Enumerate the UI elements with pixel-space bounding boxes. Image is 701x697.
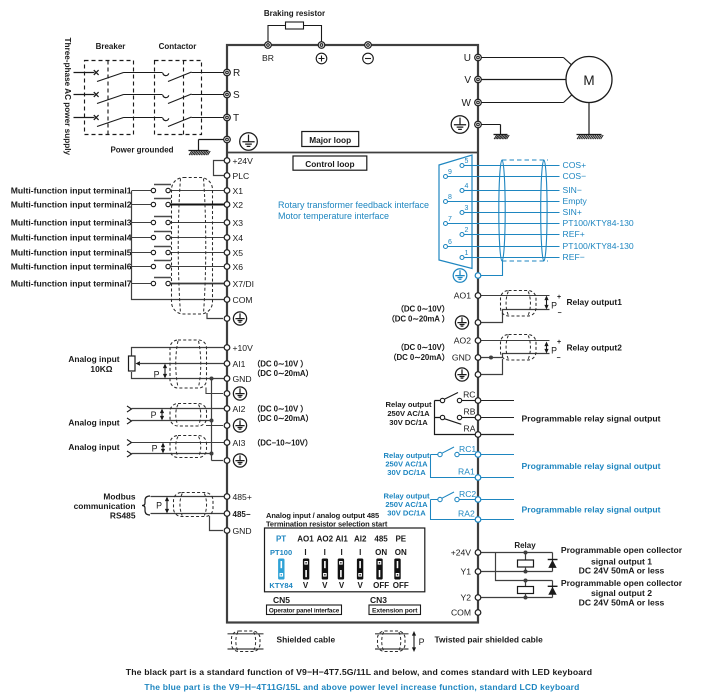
svg-text:10KΩ: 10KΩ [90, 364, 112, 374]
label Modbus communication RS485 [74, 492, 136, 521]
encoder shield wire [481, 261, 503, 276]
wire pot wiper to AI1 [139, 363, 224, 365]
svg-text:COM: COM [233, 295, 253, 305]
label Power grounded [110, 146, 173, 155]
terminal - (DC bus minus) [363, 42, 374, 64]
wire Y1 [481, 571, 553, 573]
svg-text:Programmable relay signal outp: Programmable relay signal output [522, 505, 661, 515]
protective earth symbol analog3 [233, 454, 246, 467]
svg-text:Three-phase AC power supply: Three-phase AC power supply [63, 38, 72, 156]
brace RS485 [142, 496, 150, 515]
label open collector output 2 [561, 578, 683, 608]
terminal earth AO1 [475, 320, 481, 326]
svg-text:AI1: AI1 [233, 359, 246, 369]
label termination resistor table header [266, 511, 388, 528]
svg-text:PT: PT [276, 535, 286, 544]
shield to ground wire [207, 313, 223, 319]
terminal ground (output side) [475, 121, 482, 128]
label Major loop [302, 132, 359, 147]
twisted pair arrow P (485) [156, 497, 169, 514]
svg-text:KTY84: KTY84 [269, 581, 293, 590]
terminal R [224, 68, 241, 79]
svg-text:RS485: RS485 [110, 511, 136, 521]
label Multi-function input terminal3 [11, 217, 132, 227]
label Multi-function input terminal1 [11, 185, 132, 195]
svg-text:X7/DI: X7/DI [233, 279, 255, 289]
svg-text:AI2: AI2 [354, 535, 367, 544]
svg-text:Y2: Y2 [460, 593, 471, 603]
svg-text:COS+: COS+ [563, 160, 587, 170]
multi-function input switch S1 [132, 185, 224, 193]
wire W to motor [481, 95, 572, 103]
DIP switch AI2 [357, 559, 363, 580]
table header row [276, 535, 407, 544]
connector CN3 Extension port [369, 605, 421, 615]
terminal ground (input side) [224, 136, 231, 143]
svg-text:U: U [464, 53, 471, 64]
AO2 shielded cable [501, 335, 537, 361]
svg-text:Relay output1: Relay output1 [567, 297, 623, 307]
wire Y2 [481, 597, 553, 599]
terminal ground (digital) [224, 316, 230, 322]
label Relay (open collector) [514, 541, 536, 550]
wire 485+ [151, 496, 225, 498]
svg-text:X5: X5 [233, 248, 244, 258]
svg-text:−: − [557, 355, 561, 362]
svg-text:Braking resistor: Braking resistor [264, 9, 325, 18]
svg-text:Analog input: Analog input [68, 354, 119, 364]
svg-text:signal output 2: signal output 2 [591, 588, 652, 598]
svg-text:GND: GND [452, 353, 471, 363]
svg-text:+10V: +10V [233, 343, 254, 353]
svg-text:Multi-function input terminal7: Multi-function input terminal7 [11, 278, 132, 288]
wire earth AO2 [481, 359, 503, 375]
multi-function input switch S3 [132, 217, 224, 225]
wire V to motor [481, 79, 566, 81]
svg-text:Operator panel interface: Operator panel interface [269, 607, 340, 614]
svg-text:AO2: AO2 [454, 336, 471, 346]
terminal BR [262, 42, 274, 63]
svg-text:Programmable open collector: Programmable open collector [561, 578, 683, 588]
svg-text:V: V [339, 581, 345, 590]
svg-text:Programmable relay signal outp: Programmable relay signal output [522, 461, 661, 471]
wire +24V rail [481, 551, 553, 555]
wire AO2 return from GND [481, 354, 550, 360]
terminal +24V (left) [224, 156, 253, 166]
inverter main box outline [227, 45, 478, 623]
terminal RA [464, 424, 481, 438]
svg-text:（DC 0∼10V）: （DC 0∼10V） [396, 304, 449, 314]
terminal 485- [224, 510, 251, 519]
svg-text:OFF: OFF [373, 581, 389, 590]
terminal V [464, 75, 481, 86]
DB9 pin 3 [460, 205, 477, 215]
label Twisted pair shielded cable [435, 635, 544, 645]
label CN3 [370, 595, 387, 605]
terminal X4 [224, 233, 243, 243]
terminal RC2 [459, 489, 481, 502]
terminal S [224, 90, 240, 101]
svg-text:2: 2 [465, 227, 469, 234]
relay coil 1 [518, 553, 534, 574]
analog input 3 shielded cable [170, 436, 207, 458]
protective earth symbol (digital) [233, 312, 246, 325]
svg-text:RC1: RC1 [459, 444, 476, 454]
label Multi-function input terminal6 [11, 261, 132, 271]
svg-text:V: V [464, 75, 471, 86]
svg-text:PT100/KTY84-130: PT100/KTY84-130 [563, 218, 634, 228]
twisted pair arrow P (AI3) [152, 443, 166, 454]
contactor dashed box [155, 61, 202, 135]
svg-text:（DC 0∼20mA ）: （DC 0∼20mA ） [387, 314, 450, 324]
label DC range AO1 [387, 304, 450, 324]
svg-text:AI1: AI1 [335, 535, 348, 544]
label Multi-function input terminal5 [11, 247, 132, 257]
svg-text:T: T [233, 113, 239, 124]
svg-text:I: I [304, 548, 306, 557]
svg-text:X6: X6 [233, 262, 244, 272]
phase R wire with breaker and contactor poles [74, 70, 225, 81]
label Multi-function input terminal2 [11, 199, 132, 209]
svg-text:Programmable open collector: Programmable open collector [561, 545, 683, 555]
terminal + (DC bus plus) [316, 42, 327, 64]
terminal X1 [224, 186, 243, 196]
wire pot to GND [132, 372, 225, 379]
wire pot to +10V [132, 348, 225, 356]
svg-text:V: V [358, 581, 364, 590]
svg-text:PE: PE [395, 535, 406, 544]
wire RA1 [481, 477, 514, 479]
twisted pair arrow P (AO2) [544, 339, 561, 362]
wire RC2 [481, 499, 514, 501]
svg-text:Motor temperature interface: Motor temperature interface [278, 211, 389, 221]
shield3 to earth wire [212, 460, 224, 462]
svg-text:Relay output2: Relay output2 [567, 343, 623, 353]
label Shielded cable [277, 635, 336, 645]
svg-text:The black part is a standard f: The black part is a standard function of… [126, 667, 592, 677]
DB9 pin 9 [444, 169, 477, 179]
wire AO1 return from earth [481, 310, 550, 323]
svg-text:M: M [583, 73, 594, 88]
label Relay output1 [567, 297, 623, 307]
wire 485- [151, 513, 225, 515]
svg-text:PT100/KTY84-130: PT100/KTY84-130 [563, 241, 634, 251]
svg-text:COS−: COS− [563, 171, 587, 181]
485 shield to GND wire [210, 516, 224, 531]
label DC range AI1 [253, 359, 314, 379]
label Rotary transformer feedback interface [278, 200, 429, 221]
terminal RC1 [459, 444, 481, 457]
terminal COM (left) [224, 295, 252, 305]
terminal COM (right) [451, 608, 481, 618]
wire second relay rail [496, 553, 553, 583]
svg-text:（DC 0∼20mA）: （DC 0∼20mA） [253, 368, 314, 378]
braking resistor R and wires [268, 22, 322, 42]
label Braking resistor [264, 9, 325, 18]
svg-text:（DC 0∼10V）: （DC 0∼10V） [396, 342, 449, 352]
terminal AI3 [224, 438, 245, 448]
label Relay output ratings (black) [386, 400, 432, 427]
DIP switch AO1 [303, 559, 309, 580]
protective earth symbol (input) [240, 133, 258, 151]
svg-text:−: − [558, 310, 562, 317]
terminal earth analog3 [224, 458, 230, 464]
RS485 shielded cable [174, 493, 214, 517]
DB9 pin 2 [460, 227, 477, 237]
svg-text:Relay output: Relay output [386, 400, 432, 409]
svg-text:REF−: REF− [563, 252, 585, 262]
terminal W [462, 98, 482, 109]
svg-text:AO1: AO1 [454, 291, 471, 301]
svg-text:GND: GND [233, 526, 252, 536]
svg-text:RC: RC [463, 390, 475, 400]
svg-text:（DC 0∼20mA）: （DC 0∼20mA） [253, 413, 314, 423]
svg-text:Contactor: Contactor [159, 42, 197, 51]
label DC range AO2 [389, 342, 450, 362]
twisted pair arrow P (AI2) [151, 409, 165, 421]
protective earth symbol analog1 [233, 387, 246, 400]
svg-text:SIN−: SIN− [563, 185, 582, 195]
svg-text:REF+: REF+ [563, 229, 585, 239]
wire RA2 [481, 519, 514, 521]
terminal RB [464, 407, 481, 421]
major/control loop divider line [227, 152, 478, 154]
svg-text:Breaker: Breaker [96, 42, 126, 51]
digital input common bus wire [132, 191, 225, 300]
svg-text:PLC: PLC [233, 171, 250, 181]
terminal AI2 [224, 404, 245, 414]
svg-text:AO1: AO1 [297, 535, 314, 544]
svg-text:DC 24V 50mA or less: DC 24V 50mA or less [579, 598, 665, 608]
svg-text:Shielded cable: Shielded cable [277, 635, 336, 645]
encoder signal wires [447, 166, 560, 258]
svg-text:Termination resistor selection: Termination resistor selection start [266, 519, 388, 528]
relay coil 2 [518, 581, 534, 600]
svg-text:30V DC/1A: 30V DC/1A [387, 509, 426, 518]
encoder signal labels [563, 160, 634, 262]
relay contact RC/RB/RA [435, 393, 476, 435]
multi-function input switch S5 [132, 247, 224, 255]
DIP switch 485 [376, 559, 382, 580]
legend twisted pair wires [375, 634, 409, 649]
svg-text:communication: communication [74, 501, 136, 511]
legend twisted pair arrow P [412, 631, 425, 652]
label Relay output ratings (blue 2) [384, 492, 430, 518]
svg-text:+24V: +24V [233, 156, 254, 166]
relay contact RC1/RA1 (blue) [431, 447, 476, 478]
svg-text:AI3: AI3 [233, 438, 246, 448]
table row KTY84 / OFF [269, 581, 408, 590]
analog GND junction and shield bus [210, 377, 214, 461]
svg-text:8: 8 [448, 194, 452, 201]
label Programmable relay signal output (blue 2) [522, 505, 661, 515]
svg-text:Rotary transformer feedback in: Rotary transformer feedback interface [278, 200, 429, 210]
svg-text:X2: X2 [233, 200, 244, 210]
svg-text:Analog input: Analog input [68, 442, 119, 452]
wire output ground [481, 125, 500, 135]
svg-text:X1: X1 [233, 186, 244, 196]
svg-text:Relay: Relay [514, 541, 536, 550]
svg-text:Modbus: Modbus [103, 492, 135, 502]
legend shielded cable symbol [232, 631, 261, 652]
terminal earth analog1 [224, 391, 230, 397]
svg-text:The blue part is the V9−H−4T11: The blue part is the V9−H−4T11G/15L and … [144, 682, 579, 692]
svg-text:5: 5 [465, 158, 469, 165]
svg-text:Multi-function input terminal4: Multi-function input terminal4 [11, 232, 132, 242]
svg-text:P: P [152, 444, 158, 454]
terminal X2 [224, 200, 243, 210]
svg-text:P: P [551, 301, 557, 311]
svg-text:V: V [322, 581, 328, 590]
svg-text:9: 9 [448, 169, 452, 176]
diode D1 [548, 553, 558, 572]
svg-text:+24V: +24V [451, 548, 472, 558]
svg-text:Empty: Empty [563, 196, 588, 206]
terminal GND (485) [224, 526, 251, 536]
encoder twisted pair cable [499, 160, 548, 261]
protective earth symbol (output) [451, 116, 469, 134]
svg-text:RA2: RA2 [458, 509, 475, 519]
svg-text:3: 3 [465, 205, 469, 212]
svg-text:ON: ON [375, 548, 387, 557]
power ground wire [199, 140, 225, 151]
shield1 to earth wire [206, 388, 223, 394]
svg-text:BR: BR [262, 53, 274, 63]
svg-text:P: P [419, 637, 425, 647]
svg-text:7: 7 [448, 216, 452, 223]
svg-text:485+: 485+ [233, 492, 252, 502]
relay contact RC2/RA2 (blue) [431, 492, 476, 520]
table row PT100 / ON [270, 548, 407, 557]
label Programmable relay signal output (black) [522, 414, 661, 424]
terminal +10V [224, 343, 253, 353]
svg-text:AI2: AI2 [233, 404, 246, 414]
svg-text:P: P [156, 501, 162, 511]
terminal T [224, 113, 239, 124]
terminal X5 [224, 248, 243, 258]
label Three-phase AC power supply (vertical) [63, 38, 72, 156]
svg-text:SIN+: SIN+ [563, 207, 582, 217]
svg-text:（DC 0∼10V ）: （DC 0∼10V ） [253, 404, 309, 414]
label Analog input 2 [68, 418, 119, 428]
svg-text:W: W [462, 98, 472, 109]
twisted pair arrow P (AI1) [154, 364, 168, 380]
svg-text:RA1: RA1 [458, 467, 475, 477]
digital input shielded cable [172, 178, 213, 315]
svg-text:OFF: OFF [393, 581, 409, 590]
terminal AO1 [454, 291, 481, 301]
label Relay output2 [567, 343, 623, 353]
terminal Y1 [460, 567, 480, 577]
svg-text:RC2: RC2 [459, 489, 476, 499]
label Analog input 10K [68, 354, 119, 374]
svg-text:（DC 0∼10V ）: （DC 0∼10V ） [253, 359, 309, 369]
analog input 2 shielded cable [170, 404, 207, 427]
svg-text:P: P [551, 346, 557, 356]
phase T wire with breaker and contactor poles [74, 115, 225, 126]
DB9 pin 7 [444, 216, 477, 226]
svg-text:I: I [324, 548, 326, 557]
svg-text:RB: RB [464, 407, 476, 417]
svg-text:Multi-function input terminal1: Multi-function input terminal1 [11, 185, 132, 195]
svg-text:+: + [557, 294, 561, 301]
svg-text:AO2: AO2 [317, 535, 334, 544]
svg-text:X4: X4 [233, 233, 244, 243]
svg-text:+: + [557, 339, 561, 346]
DB9 pin 5 [460, 158, 477, 168]
ground symbol output [494, 135, 510, 140]
svg-text:ON: ON [395, 548, 407, 557]
DB9 pin 4 [460, 183, 477, 193]
wire RA [481, 434, 514, 436]
svg-text:CN3: CN3 [370, 595, 387, 605]
svg-text:CN5: CN5 [273, 595, 290, 605]
svg-text:30V DC/1A: 30V DC/1A [389, 418, 428, 427]
multi-function input switch S2 [132, 199, 224, 207]
svg-text:PT100: PT100 [270, 548, 292, 557]
DB9 pin 6 [444, 239, 477, 249]
svg-text:Analog input: Analog input [68, 418, 119, 428]
svg-text:4: 4 [465, 183, 469, 190]
motor ground wire [588, 103, 590, 135]
terminal RA1 [458, 467, 481, 481]
wire +24V PLC bracket [214, 161, 225, 176]
svg-text:I: I [359, 548, 361, 557]
connector CN5 Operator panel interface [267, 605, 342, 615]
breaker dashed box [85, 61, 134, 135]
svg-text:Major loop: Major loop [309, 135, 351, 145]
label CN5 [273, 595, 290, 605]
svg-text:Control loop: Control loop [305, 159, 354, 169]
svg-text:Power grounded: Power grounded [110, 146, 173, 155]
footer line black [126, 667, 592, 677]
svg-text:V: V [303, 581, 309, 590]
terminal AO2 [454, 336, 481, 346]
terminal GND (right) [452, 353, 481, 363]
terminal +24V (right) [451, 548, 481, 558]
diode D2 [548, 581, 558, 598]
terminal X7/DI [224, 279, 254, 289]
motor M [566, 57, 612, 103]
svg-text:Multi-function input terminal3: Multi-function input terminal3 [11, 217, 132, 227]
label open collector output 1 [561, 545, 683, 576]
label Analog input 3 [68, 442, 119, 452]
label Programmable relay signal output (blue 1) [522, 461, 661, 471]
DB9 pin 1 [460, 250, 477, 260]
svg-text:P: P [154, 370, 160, 380]
terminal encoder shield [475, 273, 481, 279]
terminal earth analog2 [224, 423, 230, 429]
wire U to motor [481, 58, 572, 66]
DIP switch table box [265, 528, 425, 592]
svg-text:Multi-function input terminal2: Multi-function input terminal2 [11, 199, 132, 209]
ground symbol motor [577, 135, 604, 140]
analog input 3 chevrons and wires [127, 440, 224, 458]
svg-text:GND: GND [233, 374, 252, 384]
svg-text:Extension port: Extension port [372, 607, 418, 614]
svg-text:R: R [233, 68, 240, 79]
svg-text:Programmable relay signal outp: Programmable relay signal output [522, 414, 661, 424]
multi-function input switch S4 [132, 232, 224, 240]
terminal U [464, 53, 482, 64]
svg-text:（DC 0∼20mA）: （DC 0∼20mA） [389, 352, 450, 362]
label Control loop [293, 156, 367, 170]
wire RC [481, 400, 514, 402]
svg-text:DC 24V 50mA or less: DC 24V 50mA or less [579, 566, 665, 576]
svg-text:250V AC/1A: 250V AC/1A [387, 409, 430, 418]
DIP switch AO2 [322, 559, 328, 580]
svg-text:485: 485 [374, 535, 388, 544]
